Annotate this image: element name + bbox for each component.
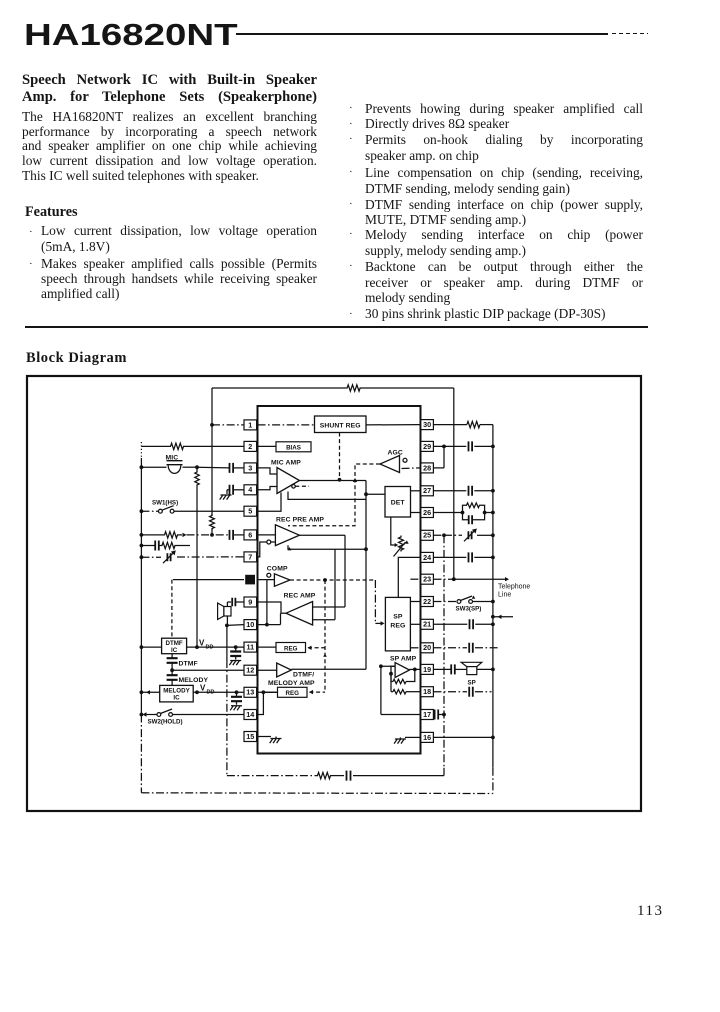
- wire dtmf mute dashed: [171, 580, 173, 639]
- arrow det adjust: [395, 543, 399, 547]
- node mic/vdd bus: [195, 465, 199, 469]
- svg-text:SP: SP: [468, 680, 476, 687]
- resistor vdd bus: [195, 471, 199, 486]
- svg-text:SW1(HS): SW1(HS): [152, 500, 178, 507]
- svg-text:Telephone: Telephone: [498, 584, 530, 591]
- wire pin5 up: [258, 493, 282, 512]
- svg-text:SW2(HOLD): SW2(HOLD): [148, 719, 183, 726]
- svg-text:IC: IC: [171, 647, 178, 654]
- wire rec amp input bus 1: [344, 535, 346, 607]
- svg-text:4: 4: [248, 485, 252, 494]
- wire comp to sp reg dash-dot: [374, 580, 376, 623]
- regulator REG (melody supply): [258, 691, 278, 693]
- node rc row left: [140, 544, 144, 548]
- wire agc control dashed: [288, 464, 380, 526]
- capacitor melody coupling: [171, 670, 173, 675]
- svg-text:17: 17: [423, 710, 431, 719]
- capacitor pin18 row dash-dot: [433, 691, 467, 693]
- svg-text:REC PRE AMP: REC PRE AMP: [276, 517, 324, 524]
- vdd bus vertical: [196, 467, 198, 471]
- mic amp inverting node circle: [292, 485, 296, 489]
- svg-text:29: 29: [423, 442, 431, 451]
- wire det input: [366, 493, 385, 495]
- node comp dash: [323, 578, 327, 582]
- pin 27: [421, 486, 434, 496]
- svg-text:DET: DET: [391, 500, 406, 507]
- svg-text:18: 18: [423, 687, 431, 696]
- svg-text:14: 14: [246, 710, 254, 719]
- wire melody ic left: [141, 691, 159, 693]
- svg-text:30: 30: [423, 420, 431, 429]
- resistor pin6 row: [141, 534, 164, 536]
- svg-text:DD: DD: [206, 645, 214, 651]
- pin 6: [244, 530, 257, 540]
- header title: [24, 17, 238, 53]
- wire backtone dash-dot vertical: [226, 625, 228, 660]
- svg-text:26: 26: [423, 508, 431, 517]
- node pin1/loop: [210, 423, 214, 427]
- pin 12: [244, 665, 257, 675]
- shunt regulator block: [315, 416, 367, 433]
- pin 15: [244, 732, 257, 742]
- node loop/pin6 row: [210, 533, 214, 537]
- wire pin28 to pin29 node: [433, 467, 444, 469]
- node feedback/sending bus: [364, 547, 368, 551]
- wire mid bus 2: [334, 549, 336, 620]
- wire shunt reg to pin 30: [366, 424, 421, 426]
- wire pin2 to bias: [258, 445, 277, 447]
- svg-text:7: 7: [248, 552, 252, 561]
- wire pin2 row: [141, 445, 168, 447]
- telephone line terminal 1: [454, 578, 505, 580]
- node vdd2: [195, 690, 199, 694]
- svg-text:13: 13: [246, 688, 254, 697]
- wire sp amp bias: [381, 666, 395, 714]
- capacitor pin17 row: [435, 710, 439, 720]
- parallel RC pin26 row: [433, 512, 462, 514]
- speaker SP: [433, 668, 451, 670]
- arrow rec pre amp fb: [288, 547, 292, 550]
- svg-text:SP AMP: SP AMP: [390, 656, 417, 663]
- svg-text:25: 25: [423, 531, 431, 540]
- pin 4: [244, 485, 257, 495]
- wire pin4 to mic amp: [258, 487, 278, 490]
- telephone line terminal 2: [491, 615, 495, 619]
- resistor pin30 row: [433, 424, 467, 426]
- svg-text:MELODY AMP: MELODY AMP: [268, 680, 315, 687]
- pin 10: [244, 620, 257, 630]
- regulator SP REG: [385, 597, 410, 651]
- pin 22: [421, 597, 434, 607]
- pin 21: [421, 619, 434, 629]
- svg-text:1: 1: [248, 420, 252, 429]
- capacitor pin20 row dash-dot: [433, 647, 467, 649]
- wire pin23 row dash-dot: [433, 578, 453, 580]
- wire loop top right: [361, 387, 454, 389]
- wire fb2 link: [390, 674, 392, 692]
- pin 28: [421, 463, 434, 473]
- wire pin9 internal: [258, 602, 282, 613]
- pin 18: [421, 687, 434, 697]
- arrow into sp reg: [375, 622, 381, 624]
- wire loop top left: [212, 387, 347, 389]
- arrow pin6 row: [178, 534, 182, 536]
- svg-text:V: V: [199, 639, 205, 648]
- right bus vertical: [492, 425, 494, 768]
- wire pin16 row: [433, 736, 493, 738]
- node dtmf/melody: [170, 668, 174, 672]
- pin 9: [244, 597, 257, 607]
- pin 17: [421, 710, 434, 720]
- svg-text:MIC AMP: MIC AMP: [271, 460, 301, 467]
- rec pre amp inverting input circle: [258, 542, 267, 557]
- capacitor pin4 row: [230, 485, 234, 495]
- wire reg1 dashed: [308, 647, 325, 649]
- resistor sp amp fb2: [393, 690, 406, 694]
- svg-text:15: 15: [246, 732, 254, 741]
- pin 26: [421, 508, 434, 518]
- wire left loop vertical: [211, 388, 213, 515]
- node sending bus / det: [364, 492, 368, 496]
- svg-text:AGC: AGC: [388, 450, 403, 457]
- block diagram border frame: [27, 376, 641, 811]
- svg-text:20: 20: [423, 643, 431, 652]
- wire pin1 dash-dot: [212, 424, 244, 426]
- pin 13: [244, 687, 257, 697]
- node sp amp out: [413, 668, 417, 672]
- svg-text:SP: SP: [393, 614, 403, 621]
- pin 20: [421, 643, 434, 653]
- right column feature bullets: [349, 102, 353, 114]
- svg-text:BIAS: BIAS: [286, 445, 301, 452]
- pin 2: [244, 441, 257, 451]
- capacitor pin24 row: [433, 556, 466, 558]
- wire pin7 dash-dot b: [177, 556, 244, 558]
- capacitor rc row: [141, 545, 155, 547]
- variable resistor (sidetone adjust): [399, 536, 404, 552]
- svg-text:REC AMP: REC AMP: [284, 593, 316, 600]
- detector block DET: [385, 487, 411, 518]
- ground pin4: [226, 490, 228, 494]
- wire rec amp output: [281, 612, 287, 614]
- svg-text:22: 22: [423, 597, 431, 606]
- node pin7 row left: [140, 555, 144, 559]
- wire comp/rec node vertical: [266, 580, 268, 625]
- left column subtitle: [22, 72, 317, 106]
- header rule: [236, 33, 608, 35]
- wire comp output dashed: [290, 579, 375, 581]
- wire pin6 to rec pre amp: [258, 534, 276, 536]
- wire shunt reg bias dashed: [339, 433, 341, 480]
- wire pin17 internal: [381, 714, 421, 716]
- wire reg2 dashed: [310, 691, 326, 693]
- svg-text:DD: DD: [207, 690, 215, 696]
- wire pin23 stub dash-dot: [410, 578, 420, 580]
- wire sp reg to pin20 dash-dot: [410, 647, 420, 649]
- wire fb1 to input: [391, 666, 395, 681]
- wire left loop lower: [211, 530, 213, 535]
- capacitor pin6 row: [230, 530, 234, 540]
- features bullet 1: [41, 223, 317, 254]
- svg-text:19: 19: [423, 665, 431, 674]
- resistor left loop: [210, 514, 215, 530]
- pin 29: [421, 441, 434, 451]
- capacitor pin11 decoupling: [234, 645, 238, 649]
- backtone bottom dash-dot: [227, 775, 316, 777]
- wire mic amp feedback: [288, 492, 366, 500]
- pin 5: [244, 506, 257, 516]
- svg-text:3: 3: [248, 463, 252, 472]
- DTMF generator IC: [141, 646, 161, 648]
- wire pin7 dash-dot a: [141, 556, 161, 558]
- capacitor pin27 row: [433, 490, 466, 492]
- variable capacitor pin7 row: [167, 553, 170, 561]
- capacitor dtmf coupling: [171, 654, 173, 659]
- svg-text:27: 27: [423, 486, 431, 495]
- ground pin15: [258, 736, 272, 738]
- switch SW3(SP): [433, 601, 457, 603]
- svg-text:10: 10: [246, 620, 254, 629]
- capacitor pin13 decoupling: [235, 690, 239, 694]
- svg-text:SW3(SP): SW3(SP): [456, 606, 482, 613]
- pin 8 (filled): [245, 575, 255, 585]
- ground pin16: [405, 736, 421, 738]
- wire pin1 to shunt reg: [258, 424, 315, 426]
- wire backtone mid: [332, 775, 344, 777]
- wire sp amp feedback: [406, 669, 415, 681]
- resistor pin2 row: [168, 443, 186, 449]
- resistor sp amp fb1: [393, 679, 406, 683]
- node vdd1: [195, 645, 199, 649]
- wire sending bus vertical: [365, 481, 367, 670]
- svg-text:REG: REG: [285, 690, 299, 697]
- receiver earpiece: [236, 601, 244, 603]
- Features heading: [25, 204, 78, 221]
- svg-text:REG: REG: [390, 623, 405, 630]
- wire pin13/pin14 link: [258, 692, 264, 714]
- bottom rail dash-dot: [141, 792, 493, 795]
- wire mic amp output: [300, 480, 367, 482]
- svg-text:SHUNT REG: SHUNT REG: [320, 422, 361, 429]
- node pin6 row left: [140, 533, 144, 537]
- node shunt/mic amp out: [338, 478, 342, 482]
- pin 1: [244, 420, 257, 430]
- capacitor pin21 row: [433, 623, 467, 625]
- wire pin24 to sp reg top: [398, 557, 421, 597]
- svg-text:REG: REG: [284, 645, 298, 652]
- pin 23: [421, 574, 434, 584]
- wire pin10 row: [227, 624, 244, 627]
- pin 30: [421, 420, 434, 430]
- wire dtmf node to pin12: [172, 669, 244, 671]
- page number: [637, 903, 663, 920]
- wire rec pre amp output: [299, 534, 345, 536]
- right dash-dot bus: [443, 535, 445, 768]
- wire fb2 to pin18: [406, 691, 421, 693]
- bias block: [276, 442, 311, 452]
- IC HA16820NT body outline: [258, 406, 421, 754]
- wire loop right vertical: [453, 388, 455, 579]
- op-amp DTMF/MELODY AMP: [258, 669, 277, 671]
- wire agc input dash-dot: [402, 467, 421, 470]
- capacitor backtone: [347, 771, 351, 781]
- svg-text:6: 6: [248, 530, 252, 539]
- resistor backtone: [316, 772, 332, 778]
- svg-text:11: 11: [246, 643, 254, 652]
- features bullet markers: [29, 226, 33, 238]
- node sp amp bias: [379, 664, 383, 668]
- wire det to pin26: [411, 512, 421, 514]
- pin 16: [421, 732, 434, 742]
- wire pin8 to comp: [258, 579, 275, 581]
- svg-text:V: V: [200, 684, 206, 693]
- pin 7: [244, 552, 257, 562]
- wire melody ic to pin13: [193, 691, 244, 693]
- wire pin6 dash-dot: [187, 534, 230, 536]
- section rule: [25, 326, 648, 328]
- left column intro paragraph: [22, 110, 317, 140]
- wire sp reg to pin22: [410, 601, 420, 603]
- wire rec pre amp feedback: [288, 545, 366, 549]
- arrow agc control: [353, 478, 357, 482]
- node mic row: [140, 465, 144, 469]
- svg-text:9: 9: [248, 597, 252, 606]
- wire mute bus dashed: [324, 580, 326, 692]
- svg-text:21: 21: [423, 620, 431, 629]
- wire pin10 internal: [258, 624, 281, 626]
- variable capacitor pin25 row: [442, 533, 446, 537]
- svg-text:Line: Line: [498, 592, 511, 599]
- wire dtmf ic to pin11: [187, 646, 244, 648]
- MELODY generator IC: [160, 685, 194, 702]
- svg-text:DTMF: DTMF: [179, 661, 198, 668]
- wire pin3 to mic amp: [258, 468, 278, 474]
- switch SW2(HOLD): [143, 712, 147, 716]
- left bus vertical: [140, 442, 142, 458]
- svg-text:IC: IC: [173, 694, 180, 701]
- svg-text:DTMF/: DTMF/: [293, 672, 314, 679]
- wire dtmf amp output: [291, 668, 366, 670]
- node sp amp in: [389, 672, 393, 676]
- svg-text:16: 16: [423, 733, 431, 742]
- Block Diagram heading: [26, 350, 127, 367]
- resistor rc row: [159, 545, 161, 547]
- wire rec amp inputs: [313, 606, 345, 608]
- wire sp reg to pin21: [410, 623, 420, 625]
- svg-text:2: 2: [248, 442, 252, 451]
- resistor top loop: [347, 385, 361, 391]
- wire pin8 row: [173, 579, 244, 581]
- svg-text:28: 28: [423, 463, 431, 472]
- pin 11: [244, 642, 257, 652]
- pin 24: [421, 552, 434, 562]
- node receiver/pin10: [225, 624, 229, 628]
- svg-text:5: 5: [248, 507, 252, 516]
- pin 25: [421, 530, 434, 540]
- pin 3: [244, 463, 257, 473]
- capacitor pin3 row: [197, 466, 229, 469]
- pin 14: [244, 710, 257, 720]
- regulator REG (DTMF supply): [258, 646, 277, 648]
- wire backtone right: [353, 775, 444, 777]
- wire sp amp out to pin19: [410, 668, 421, 670]
- svg-text:COMP: COMP: [267, 566, 288, 573]
- svg-text:23: 23: [423, 575, 431, 584]
- pin 19: [421, 664, 434, 674]
- capacitor pin29 row: [433, 445, 466, 447]
- svg-text:24: 24: [423, 553, 431, 562]
- wire det to pin27: [411, 490, 421, 492]
- features bullet 2: [41, 256, 317, 287]
- wire det bottom: [391, 517, 396, 545]
- svg-text:12: 12: [246, 666, 254, 675]
